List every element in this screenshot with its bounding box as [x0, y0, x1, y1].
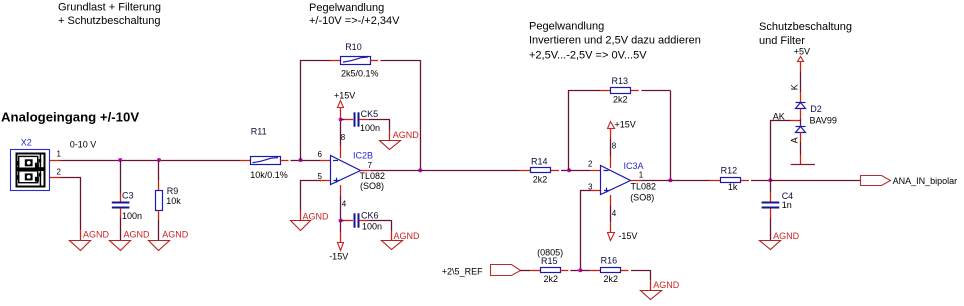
note: Pegelwandlung header 2	[529, 20, 701, 61]
net flag +2\5_REF	[442, 265, 521, 277]
wire X2 pin2 to AGND	[61, 178, 81, 241]
svg-text:10k: 10k	[166, 196, 181, 206]
svg-text:AK: AK	[773, 111, 785, 121]
pin label A	[790, 137, 800, 143]
wire pin5 to AGND	[301, 181, 331, 221]
note: Schutzbeschaltung header	[759, 21, 852, 47]
pin 1 output wire IC3A	[631, 171, 671, 181]
svg-text:C3: C3	[122, 190, 134, 200]
svg-text:TL082: TL082	[631, 182, 657, 192]
svg-text:7: 7	[368, 161, 373, 170]
svg-text:100n: 100n	[362, 222, 382, 232]
svg-text:Pegelwandlung: Pegelwandlung	[529, 20, 604, 32]
svg-text:A: A	[790, 137, 800, 143]
wire feedback right vertical to output	[420, 60, 422, 170]
svg-text:(SO8): (SO8)	[630, 192, 654, 202]
svg-text:R15: R15	[541, 256, 558, 266]
svg-text:2k5/0.1%: 2k5/0.1%	[341, 69, 379, 79]
supply bar symbol at D2 anode	[791, 164, 815, 166]
svg-text:2k2: 2k2	[533, 174, 548, 184]
wire D2 anode to supply bar	[800, 132, 802, 164]
node junction at C3	[118, 158, 122, 162]
svg-text:4: 4	[342, 199, 347, 208]
ground AGND at C3	[110, 229, 151, 250]
node junction at IC2B output	[418, 168, 422, 172]
svg-text:AGND: AGND	[162, 229, 189, 239]
svg-text:R12: R12	[721, 166, 738, 176]
node junction R15/R16/pin3	[578, 268, 582, 272]
ground AGND at R9	[149, 229, 189, 250]
svg-text:R16: R16	[601, 255, 618, 265]
svg-text:AGND: AGND	[394, 231, 421, 241]
wire pin2 to IC3A	[569, 159, 601, 170]
svg-text:1: 1	[57, 150, 62, 159]
svg-text:Grundlast + Filterung: Grundlast + Filterung	[58, 2, 161, 14]
op-amp IC2B	[331, 151, 386, 192]
svg-text:Analogeingang +/-10V: Analogeingang +/-10V	[1, 110, 139, 125]
pin 1 of X2	[50, 150, 62, 161]
supply +15V at IC3A	[608, 120, 636, 130]
svg-text:2k2: 2k2	[613, 94, 628, 104]
svg-text:2k2: 2k2	[604, 274, 619, 284]
resistor R10	[330, 42, 420, 79]
svg-text:R9: R9	[167, 186, 179, 196]
node junction at CK5 branch	[339, 118, 343, 122]
svg-text:8: 8	[612, 142, 617, 151]
svg-text:R14: R14	[531, 157, 548, 167]
svg-text:R13: R13	[612, 76, 629, 86]
ground AGND at CK5	[380, 130, 420, 150]
svg-text:TL082: TL082	[360, 171, 386, 181]
svg-text:6: 6	[318, 150, 323, 159]
pin 5 number	[318, 172, 323, 181]
svg-text:+/-10V =>-/+2,34V: +/-10V =>-/+2,34V	[309, 15, 400, 27]
ground AGND at C4	[760, 231, 800, 250]
wire flag to R15	[520, 270, 540, 272]
ground AGND at IC2B pin5	[291, 211, 330, 230]
wire R13 feedback right vertical	[670, 91, 672, 181]
diode D2 upper half	[796, 103, 837, 126]
svg-text:CK5: CK5	[361, 109, 379, 119]
node junction at R11 / R10 / pin 6	[299, 158, 303, 162]
wire +5V to D2 cathode	[800, 72, 802, 103]
pin 7 output wire	[361, 161, 421, 170]
supply -15V at IC2B	[329, 221, 348, 262]
node junction at IC3A output	[668, 178, 672, 182]
svg-text:100n: 100n	[122, 211, 142, 221]
svg-text:IC2B: IC2B	[353, 151, 373, 161]
svg-text:AGND: AGND	[653, 280, 680, 290]
svg-text:3: 3	[588, 182, 593, 191]
wire feedback left vertical to R10	[301, 61, 331, 161]
svg-text:5: 5	[318, 172, 323, 181]
pin 8 supply wire IC2B	[341, 120, 346, 159]
svg-text:R10: R10	[345, 42, 362, 52]
svg-text:BAV99: BAV99	[810, 115, 837, 125]
svg-text:+2,5V...-2,5V => 0V...5V: +2,5V...-2,5V => 0V...5V	[529, 50, 647, 62]
note: Grundlast header	[58, 2, 161, 28]
svg-text:AGND: AGND	[124, 229, 151, 239]
resistor R16	[580, 255, 651, 283]
svg-text:X2: X2	[21, 138, 32, 148]
wire R16 to AGND	[650, 270, 652, 290]
wire IC2B output to R14	[420, 170, 520, 172]
supply +15V at IC2B	[334, 90, 355, 119]
diode D2 lower half	[796, 127, 806, 133]
wire AK branch	[771, 111, 801, 180]
svg-text:Schutzbeschaltung: Schutzbeschaltung	[759, 21, 852, 33]
resistor R12	[721, 166, 771, 193]
svg-text:4: 4	[612, 209, 617, 218]
wire R13 feedback left vertical	[569, 91, 601, 171]
svg-text:2: 2	[57, 167, 62, 176]
svg-text:K: K	[790, 84, 800, 90]
net label 0-10 V	[70, 140, 97, 150]
note: Pegelwandlung header 1	[309, 2, 400, 27]
svg-text:1k: 1k	[728, 182, 738, 192]
ground AGND at CK6	[382, 231, 421, 250]
resistor R14	[520, 157, 569, 185]
svg-text:2k2: 2k2	[544, 274, 559, 284]
pin 6 number	[318, 150, 323, 159]
capacitor CK5	[341, 109, 390, 140]
resistor R15	[537, 247, 580, 284]
connector X2	[11, 138, 50, 191]
svg-text:D2: D2	[810, 104, 822, 114]
capacitor CK6	[341, 210, 392, 240]
svg-text:IC3A: IC3A	[624, 161, 644, 171]
supply +5V at D2	[794, 47, 810, 72]
pin 2 of X2	[50, 167, 62, 177]
wire node to ANA flag	[770, 180, 860, 182]
ground AGND at X2 pin2	[70, 229, 110, 250]
op-amp IC3A	[601, 161, 657, 203]
svg-text:100n: 100n	[360, 123, 380, 133]
net flag ANA_IN_bipolar	[861, 176, 958, 187]
capacitor C4	[762, 180, 794, 240]
pin label K	[790, 84, 800, 90]
svg-text:+ Schutzbeschaltung: + Schutzbeschaltung	[58, 15, 160, 27]
svg-text:CK6: CK6	[361, 210, 379, 220]
node junction at R12 / C4 / D2 / output	[768, 178, 772, 182]
svg-text:8: 8	[341, 133, 346, 142]
svg-text:2: 2	[588, 159, 593, 168]
resistor R9	[156, 160, 182, 241]
node junction at R9	[157, 158, 161, 162]
svg-text:+2\5_REF: +2\5_REF	[442, 266, 483, 276]
svg-text:-15V: -15V	[329, 251, 348, 261]
resistor R11	[240, 127, 301, 180]
pin 4 supply wire IC2B	[341, 185, 347, 221]
capacitor C3	[112, 160, 142, 241]
wire IC3A output to R12	[670, 180, 720, 182]
svg-text:+5V: +5V	[794, 47, 810, 57]
ground AGND at R16	[641, 280, 680, 299]
resistor R13	[600, 76, 670, 104]
svg-text:Invertieren und 2,5V dazu addi: Invertieren und 2,5V dazu addieren	[529, 35, 701, 47]
note: Analogeingang title	[1, 110, 139, 125]
node junction at CK6 branch	[339, 219, 343, 223]
svg-text:Pegelwandlung: Pegelwandlung	[309, 2, 384, 14]
svg-text:10k/0.1%: 10k/0.1%	[250, 170, 288, 180]
pin 4 supply wire IC3A	[611, 195, 617, 232]
wire X2 pin1 to R11	[61, 160, 241, 162]
svg-text:AGND: AGND	[303, 211, 330, 221]
svg-text:(SO8): (SO8)	[360, 181, 384, 191]
svg-text:AGND: AGND	[393, 130, 420, 140]
svg-text:+15V: +15V	[334, 90, 355, 100]
svg-text:1n: 1n	[782, 200, 792, 210]
wire pin6 from node	[301, 160, 331, 162]
svg-text:+15V: +15V	[615, 120, 636, 130]
svg-text:1: 1	[639, 171, 644, 180]
wire between diode halves	[800, 109, 802, 126]
svg-text:-15V: -15V	[618, 231, 637, 241]
svg-text:AGND: AGND	[773, 231, 800, 241]
pin 8 supply wire IC3A	[611, 129, 617, 168]
node junction at IC3A pin2	[567, 168, 571, 172]
svg-text:R11: R11	[251, 127, 267, 137]
svg-text:und Filter: und Filter	[759, 35, 805, 47]
supply -15V at IC3A	[608, 231, 638, 241]
wire pin3 from R15/R16 node	[581, 182, 601, 270]
svg-text:AGND: AGND	[83, 229, 110, 239]
svg-text:0-10 V: 0-10 V	[70, 140, 97, 150]
svg-text:ANA_IN_bipolar: ANA_IN_bipolar	[893, 176, 958, 186]
